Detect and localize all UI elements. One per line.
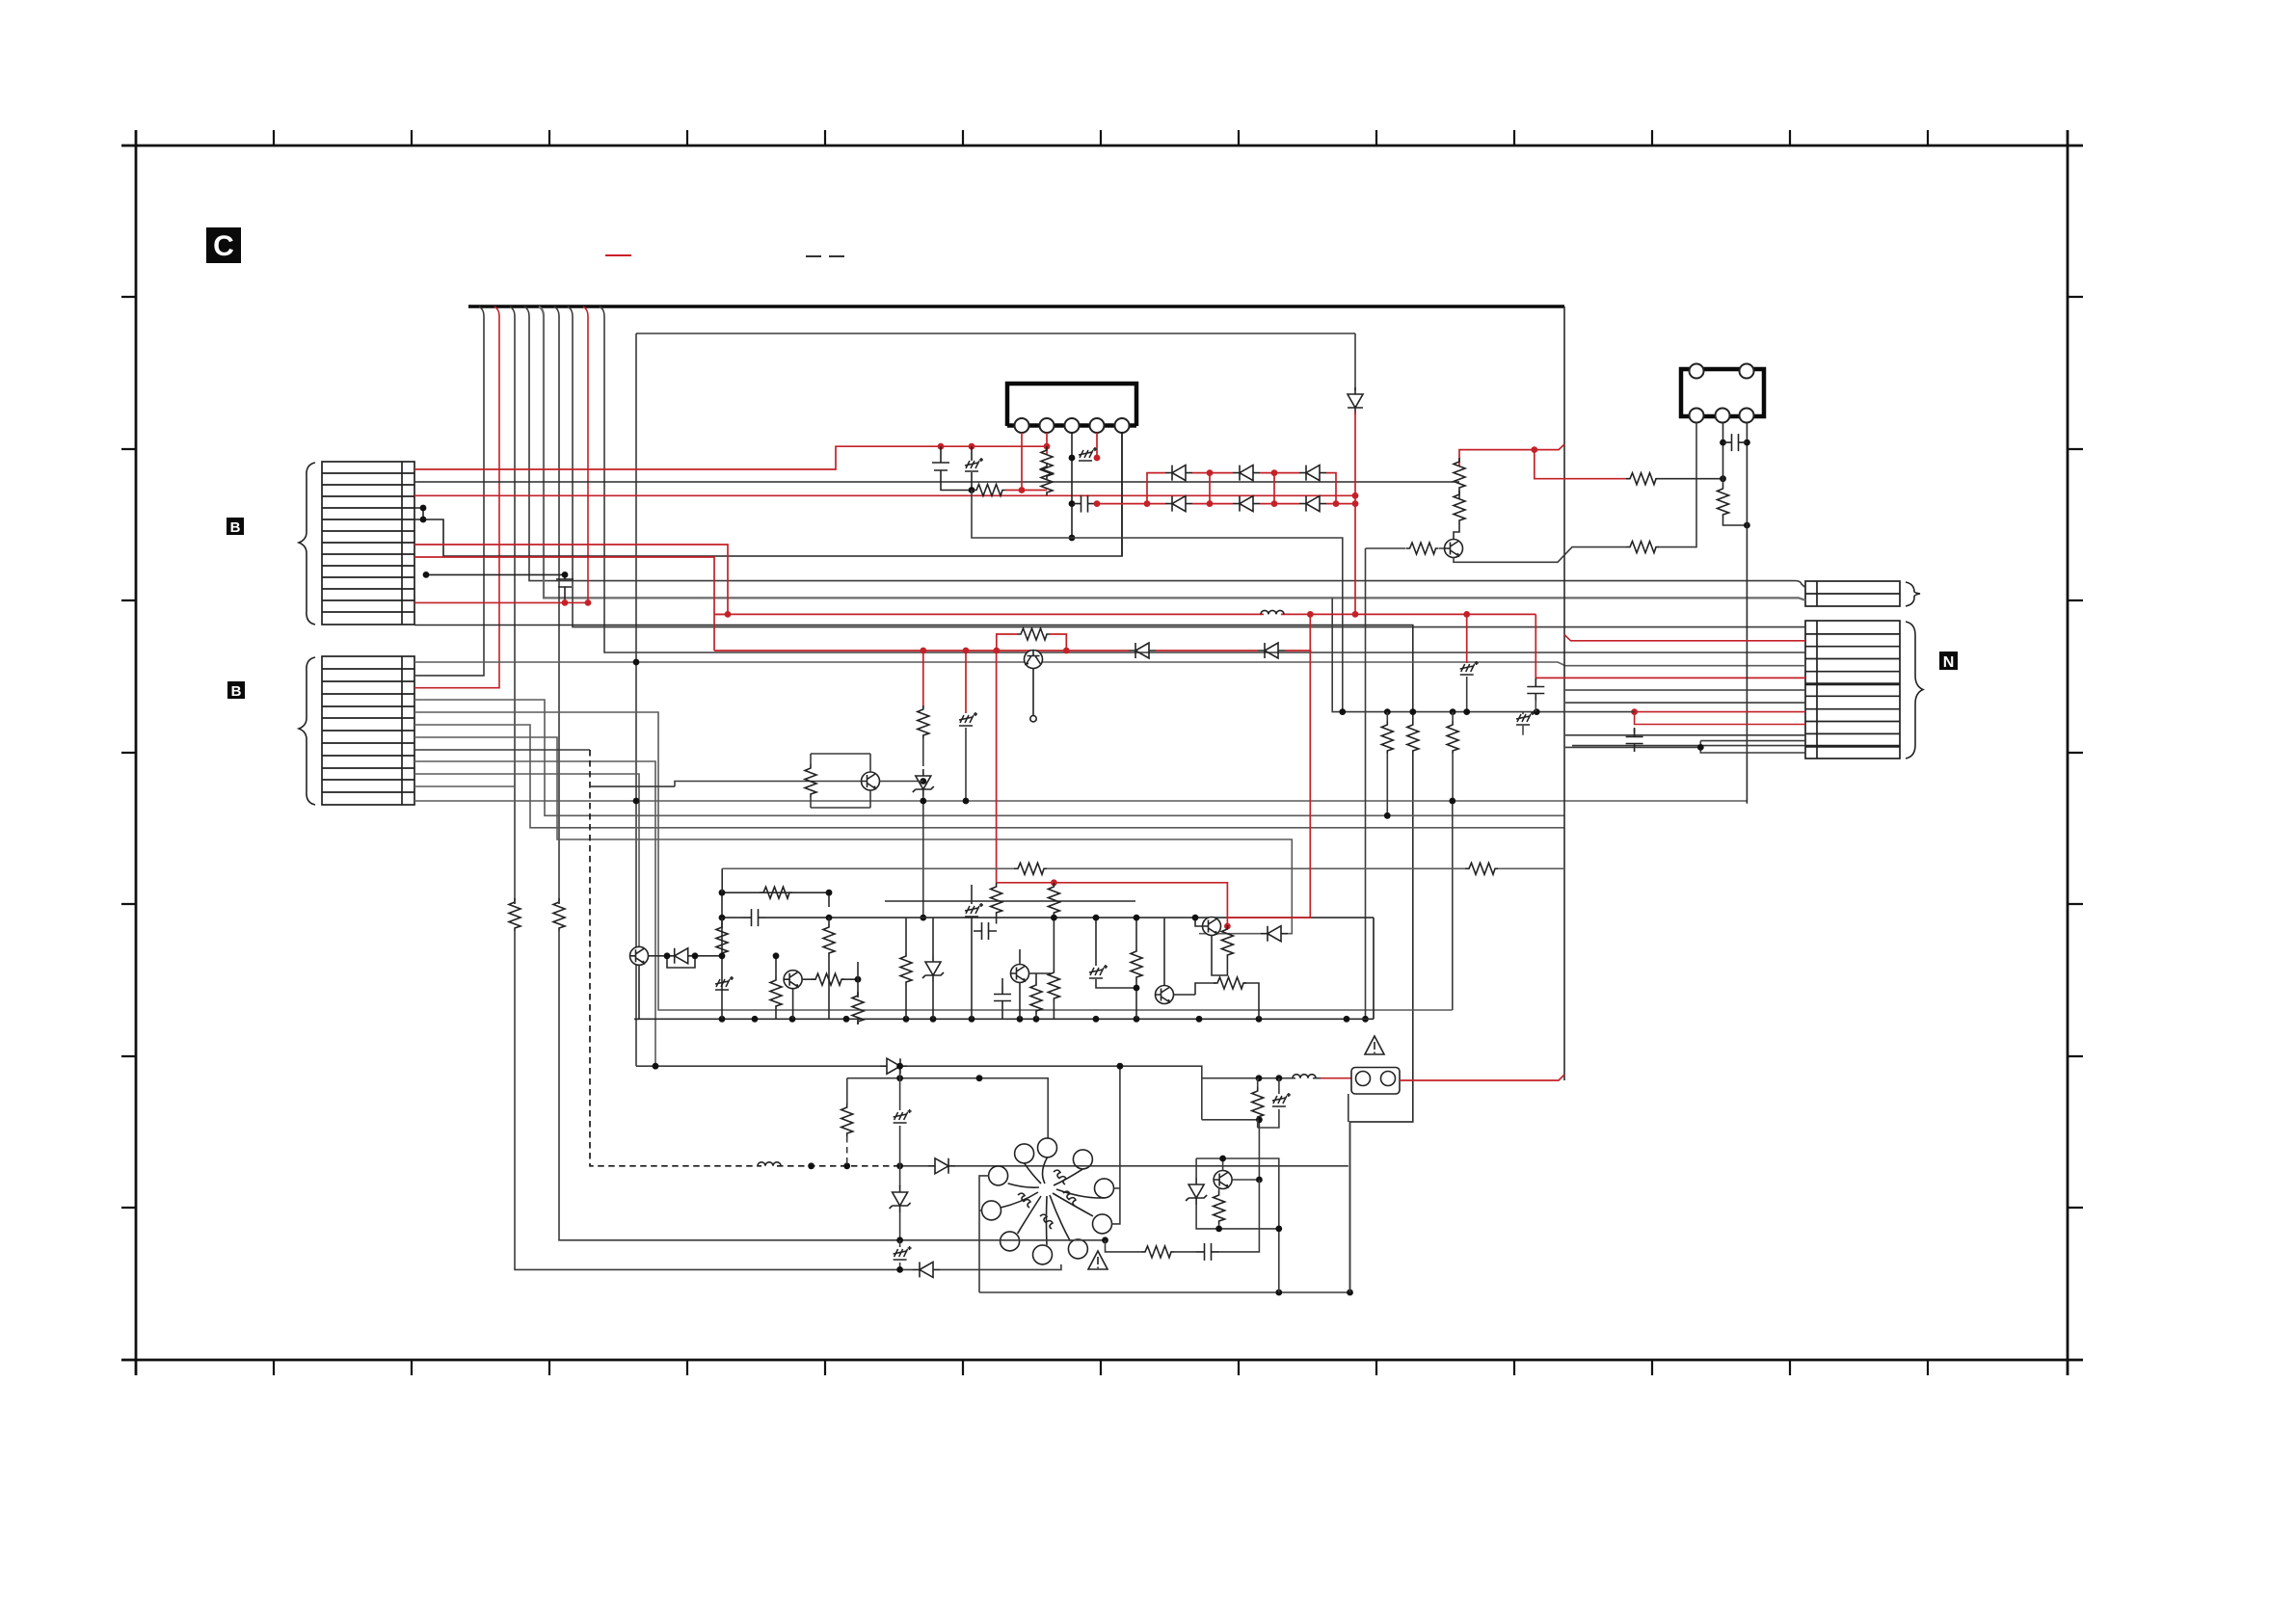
wire [1196,1158,1279,1292]
thick top bus [468,305,1564,308]
junction [976,1075,983,1081]
wire (red) [996,651,998,883]
B2 row1 long wire to N connector [414,662,1805,666]
junction (red) [1352,611,1359,618]
capacitor C near B1 (on row 9 stub) [426,574,574,599]
resistor R6 [1626,473,1659,485]
wire [1212,936,1227,976]
junction [1256,1075,1263,1081]
warning triangle above FFC [1365,1036,1384,1054]
wire [1164,918,1203,985]
junction (red) [1051,879,1057,886]
B2 row6 [414,725,1564,828]
wire (red) [965,651,967,713]
transistor Q1 [1025,651,1043,669]
wire [675,782,923,787]
junction (red) [993,648,1000,654]
wire [649,955,723,957]
resistor R24 [1465,863,1498,874]
series cap row [722,917,1374,918]
tick marks top [274,130,1928,146]
B2 row10 wire [414,774,639,946]
junction [1463,708,1470,715]
motor M1: ring of commutator circles [982,1138,1114,1264]
wire [1805,684,1900,747]
resistor R25 [553,898,565,931]
junction [1744,522,1750,529]
inner webbing [1001,1157,1105,1245]
resistor R13 [760,887,792,898]
junction (red) [920,648,926,654]
junction (red) [562,599,569,606]
wire [721,868,723,892]
wire [1218,1189,1220,1229]
emitter wire to resistor to connector [1454,547,1626,563]
wire [1053,916,1055,969]
wire (red) [1564,635,1805,641]
junction [562,572,569,578]
wire [802,978,858,980]
inductor L2 [1293,1075,1316,1078]
diode D1 [1165,466,1192,481]
junction [633,798,640,805]
wire [1001,978,1003,1019]
wire [1232,1179,1259,1181]
junction (red) [963,648,970,654]
inductor L on dashed line [758,1162,781,1166]
wire [1458,491,1460,499]
B2 bottom row [414,800,1748,802]
wire [971,446,973,490]
B2 row4 [414,700,1564,815]
capacitor C1 [1073,495,1096,513]
brace for N connector [1906,622,1923,758]
diode D2 [1233,466,1260,481]
junction [896,1063,903,1070]
red dots on IC supply bus [938,443,945,450]
junction [920,798,926,805]
wire [1466,677,1468,712]
connector right small (2-pin) [1805,581,1900,606]
junction [633,659,640,666]
junction (red) [1207,500,1214,507]
diode D3 [1299,466,1326,481]
B2 row8 [414,761,655,1066]
junction (red) [1207,469,1214,476]
junction (red) [1271,469,1278,476]
resistor R10 [1381,721,1393,754]
IC U1 (top middle block) [1007,384,1136,433]
resistor R2 stack (vertical, pin2) [1041,446,1053,479]
junction [896,1162,903,1169]
red branch down to N connector row [1535,614,1805,678]
B2 row11 wire [414,785,515,787]
wire [1096,918,1136,988]
diode D5 [1233,496,1260,512]
wire [1348,1094,1349,1122]
resistor R21 [1131,947,1142,980]
wire [1032,669,1034,716]
red corner and resistor stack [1459,450,1535,466]
trimmer cap near N feed [1516,711,1535,725]
junction [1449,798,1455,805]
section label B (lower connector) [227,681,245,700]
junction [1256,1116,1263,1123]
wire [1007,423,1136,428]
wire [1332,711,1634,712]
black line from pin3 bottom to right [1069,535,1076,542]
red bundle wire to B2 row 2 [414,306,499,688]
wire [965,728,967,801]
resistor R12 [1447,721,1458,754]
wire (dashed) [846,1136,848,1166]
resistor R15 [770,976,782,1009]
wire (red) [1053,883,1055,885]
electrolytic capacitor CE1 [1079,447,1097,461]
motor top line [636,1066,1202,1120]
B2 row5 [414,712,1453,1010]
connector N (right 11-pin comb) [1805,621,1900,758]
wire [1196,1158,1279,1229]
junction [719,915,726,921]
wire [1258,1078,1279,1128]
capacitor C6 [1196,1243,1219,1261]
resistor R22 [1221,925,1233,958]
junction [1720,475,1726,482]
wire [1452,754,1454,801]
wire (red) [1635,712,1805,725]
junction [1215,1226,1222,1233]
resistor R4 [1406,543,1439,554]
wire [722,867,1564,869]
wire [1331,598,1333,710]
mid-right of cluster: trimmer + resistor + transistors [1089,965,1108,978]
electrolytic capacitor CE3 [959,712,977,726]
wire [974,930,997,932]
wire [922,796,924,918]
middle column x=933.6 chain [899,1066,901,1110]
border frame [121,130,2083,1375]
resistor bridge over transistor Q3 [997,634,1067,651]
diode D7 [1348,387,1363,414]
junction (red) [1333,500,1340,507]
wire [899,1263,901,1269]
vertical 1400 up to FFC level [1350,1122,1413,1292]
wire [899,1240,901,1247]
junction [423,572,430,578]
junction [773,952,780,959]
transistor Q6 middle [784,971,802,989]
wire [932,918,934,1019]
wire [1746,423,1748,804]
brace for B2 [299,657,315,805]
junction (red) [1063,648,1070,654]
black B1 bottom row long wire to right loop [414,625,1413,1293]
resistor R17 [852,992,864,1024]
left column resistor to dashed [846,1078,848,1104]
junction [1384,708,1391,715]
diode D13 [1261,926,1288,942]
capacitor C4 [743,909,766,926]
junction [920,915,926,921]
wire [1723,518,1748,525]
wire [1365,548,1367,1019]
wire (red) [1022,490,1047,492]
junction (red) [1144,500,1151,507]
red B1 row8 wire down to analog cluster [414,557,714,614]
trimmer cap CT1 [965,458,983,471]
junction (red) [1631,708,1638,715]
junction [896,1237,903,1243]
vertical resistors under loop [716,923,728,956]
resistor R16 [812,973,844,985]
IC pin3 black drop [1071,433,1073,538]
junction [826,890,833,896]
junction [808,1162,814,1169]
tick marks left [121,297,136,1208]
wire [905,918,907,1019]
resistor R29 [1252,1087,1264,1120]
junction (red) [1094,500,1101,507]
red wire from FFC right to vertical 1623 [1400,1075,1564,1080]
IC pin5 black drop [1121,433,1123,556]
red stub into FFC component [1321,1078,1351,1079]
junction (red) [725,611,732,618]
wire (red) [922,651,924,708]
wire [539,306,1805,600]
tick marks right [2068,297,2083,1208]
wire [1522,712,1524,735]
electrolytic capacitor CE4 [894,1109,912,1123]
zener diode ZD3 [890,1185,911,1212]
wire (red) [1635,711,1805,713]
wire [1366,547,1449,549]
wire [996,916,998,924]
wire [1007,384,1136,426]
resistor R11 [1407,721,1419,754]
B1 rows 4/5 bracket stubs [414,433,1122,556]
wire (dashed) [590,750,761,1166]
junction [1409,708,1416,715]
electrolytic + cap chain mid [965,903,983,917]
diode D9 [1258,643,1285,658]
wire [828,918,830,1019]
wire [1659,478,1723,480]
transistor Q4 on row 808 [862,772,880,790]
trimmer + resistor under left [715,976,734,990]
wire (red) [1005,490,1022,492]
resistors on bundle verticals [509,898,521,931]
wire [1659,423,1696,547]
wire [1174,983,1260,1019]
wire [1454,482,1459,540]
zener diode ZD1 [913,769,934,796]
wire [1053,1001,1055,1019]
wire [899,1212,901,1240]
wire [857,1019,859,1024]
red feed from rail down to analog cluster [1227,614,1310,918]
wire [1452,712,1454,721]
IC pin1 red drop [1021,433,1023,491]
cap between pins [1720,439,1726,446]
wire [1202,1120,1260,1180]
wire [1035,973,1037,1019]
junction (red) [1044,443,1051,450]
rectangle top line from bundle [636,333,1355,334]
capacitor C (left of IC) [932,446,972,490]
wire [811,754,870,808]
section label C [206,227,241,263]
wire [900,1165,1348,1167]
junction [1362,1016,1369,1023]
junction [1450,708,1456,715]
section label N (right connector) [1939,652,1958,671]
red B1 row7 wire down to analog cluster [414,545,728,614]
junction [1192,915,1199,921]
wire (red) [1354,412,1356,614]
junction [420,517,427,523]
junction [1339,708,1346,715]
zener diode ZD2 [922,955,944,982]
resistor R7 [1718,485,1729,518]
junction [826,915,833,921]
wire bundle dropping from bus [414,306,1805,904]
section label B (upper connector) [227,518,244,536]
wire [922,738,924,766]
red drop from 1592 dot to resistor line [1535,450,1626,479]
wire [1535,700,1536,712]
electrolytic capacitor CE5 [894,1246,912,1260]
wire [721,918,723,1019]
cap + resistor under Q7 [994,986,1011,1009]
inductor L1 [1261,610,1284,614]
wire [793,962,858,1019]
diode D11 [880,1058,907,1074]
capacitor C7 [1527,678,1544,702]
transistor Q (top right) [1445,540,1463,558]
wire (red) [1466,614,1468,663]
junction (red) [1352,500,1359,507]
IC pin4 red drop [1096,433,1098,458]
transistor Q10 cluster [1214,1171,1232,1189]
resistors under red terminals [991,883,1002,916]
junction [719,890,726,896]
junction (red) [1271,500,1278,507]
junction (red) [1531,446,1537,453]
wire [667,956,695,968]
junction (red) [1094,455,1101,462]
diode D4 [1165,496,1192,512]
top small loop with resistor [722,892,829,954]
svg-text:N: N [1943,654,1955,671]
brace for B1 [299,463,315,625]
vertical resistor at 1304 under line 1118 [1257,1078,1259,1087]
ground rail [634,918,1374,1019]
wire (dashed) [777,1165,900,1167]
junction (red) [1224,923,1231,930]
connector B1 (upper left 14-pin comb) [322,462,414,625]
capacitor C5 [974,922,997,940]
resistor R5 [1626,542,1659,553]
junction (red) [1463,611,1470,618]
wire [1020,949,1051,1019]
junction [896,1075,903,1081]
resistor R27 [1214,1191,1225,1224]
diode D6 [1299,496,1326,512]
resistor R3 [1454,491,1465,523]
junction (red) [1352,492,1359,499]
junction [1275,1290,1282,1296]
connector B2 (lower left 12-pin comb) [322,656,414,805]
wire [971,885,973,1019]
electrolytic capacitor CE2 [1460,661,1479,675]
resistor R18 [1030,981,1042,1014]
junction [664,952,671,959]
transistor Q5 (left) with diode [630,946,649,965]
junction [1384,812,1391,819]
transistor Q7 [1011,965,1029,983]
red overlay in cluster [997,883,1228,926]
junction [719,952,726,959]
junction [1134,985,1140,992]
red B1 row1 wire to IC red bus [414,446,1047,469]
junction [1276,1075,1283,1081]
resistor R23 [1214,977,1246,989]
diode D8 [1129,643,1156,658]
junction [1347,1290,1353,1296]
junction [1117,1063,1124,1070]
wire [1257,1120,1259,1128]
resistor R26 [841,1104,853,1136]
resistor R14 [823,923,835,956]
capacitor C2 [1723,434,1747,451]
warning triangle below motor [1088,1251,1108,1269]
legend: red wire sample [605,254,631,256]
transistor Q3 [1025,651,1043,669]
junction dots on red row 11 [585,599,592,606]
svg-text:B: B [230,519,241,536]
junction [855,976,862,983]
diode on that line [928,1158,955,1174]
trimmer resistor near pin3 [1069,455,1076,462]
FFC / jack component (two circles in box) [1351,1068,1400,1095]
junction [1134,915,1140,921]
junction [1275,1226,1282,1233]
transistor Q9 lower right [1156,986,1174,1004]
resistor R28 [1141,1246,1174,1258]
junction [1256,1177,1263,1184]
connector J2 (top right 5-pin block) [1681,364,1764,423]
tick marks bottom [274,1360,1928,1375]
junction [1744,439,1750,446]
resistor R8 [1017,628,1050,640]
wire [590,785,675,787]
junction [1534,708,1540,715]
junction [920,778,926,785]
junction [1219,1156,1226,1162]
red bundle wire to B1 row 11 [414,306,588,602]
cap under red feed [1634,728,1636,732]
red rail left end drop: from B1 area down [714,614,728,651]
junction [1697,744,1704,751]
5-pin connector lower circuitry [1722,423,1724,479]
junction [692,952,699,959]
junction [1093,915,1100,921]
electrolytic capacitor CE6 [1272,1093,1291,1106]
wire [1722,479,1724,485]
B2 row7 long gray to mid [414,737,1292,934]
wire [775,956,777,1020]
